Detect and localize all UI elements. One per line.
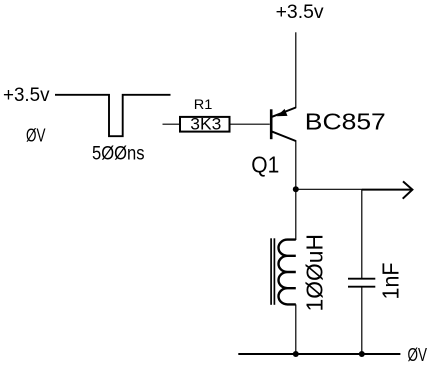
svg-text:Q1: Q1 <box>251 151 279 177</box>
transistor Q1 base bar <box>270 109 273 139</box>
wire supply to emitter <box>295 32 297 108</box>
capacitor C1 bottom plate <box>348 286 375 288</box>
transistor Q1 collector line <box>272 132 296 141</box>
inductor L1 coil <box>279 240 296 305</box>
svg-text:+3.5v: +3.5v <box>276 1 324 23</box>
wire collector to output node <box>295 140 297 189</box>
junction dot output node <box>293 186 299 192</box>
wire input to R1 <box>163 123 180 125</box>
ground rail 0V <box>238 353 400 355</box>
input pulse waveform <box>55 95 171 136</box>
wire inductor to ground rail <box>295 304 297 354</box>
inductor core bar 2 <box>273 238 275 304</box>
output net arrowhead <box>403 181 413 198</box>
svg-text:R1: R1 <box>194 96 213 112</box>
svg-text:1ØØuH: 1ØØuH <box>301 234 327 312</box>
svg-text:ØV: ØV <box>408 345 428 365</box>
transistor Q1 emitter line <box>272 108 296 117</box>
wire capacitor branch down <box>361 190 363 278</box>
junction dot capacitor ground <box>359 351 365 357</box>
capacitor C1 top plate <box>348 278 375 280</box>
svg-text:1nF: 1nF <box>377 263 403 300</box>
svg-text:5ØØns: 5ØØns <box>92 144 145 165</box>
wire capacitor to ground rail <box>361 287 363 354</box>
output net arrow shaft <box>362 189 412 191</box>
wire output node to capacitor branch <box>296 188 362 190</box>
resistor R1 body <box>180 117 230 132</box>
wire R1 to Q1 base <box>231 123 270 125</box>
svg-text:BC857: BC857 <box>305 108 386 134</box>
svg-text:3K3: 3K3 <box>190 114 221 133</box>
wire output node down to inductor <box>295 189 297 240</box>
junction dot inductor ground <box>293 351 299 357</box>
inductor core bar 1 <box>270 238 272 304</box>
svg-text:+3.5v: +3.5v <box>3 84 50 106</box>
transistor Q1 emitter arrowhead PNP <box>277 109 288 116</box>
svg-text:ØV: ØV <box>26 126 46 146</box>
